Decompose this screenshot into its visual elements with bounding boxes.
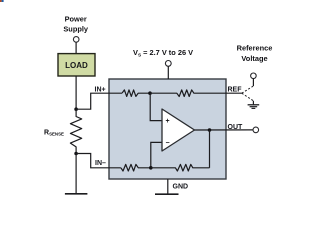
wire: feedback from output node down <box>209 130 211 168</box>
ground: left <box>65 193 88 195</box>
terminal: Vs supply <box>165 61 171 67</box>
svg-text:Voltage: Voltage <box>241 54 267 63</box>
resistor RSENSE <box>70 109 81 153</box>
wire: dashed REF to ground <box>242 93 254 101</box>
svg-text:RSENSE: RSENSE <box>44 129 64 136</box>
svg-text:Reference: Reference <box>237 43 273 52</box>
resistor R2 (top-right internal) + wire to REF <box>150 90 242 97</box>
svg-text:IN–: IN– <box>95 160 106 167</box>
terminal: power supply <box>73 37 79 43</box>
wire: op-amp output to OUT terminal <box>195 129 254 131</box>
svg-text:Power: Power <box>65 14 87 23</box>
node: junction dot top of Rsense <box>74 107 78 111</box>
node: output junction dot <box>208 128 212 132</box>
wire: LOAD to node IN+ <box>75 76 77 109</box>
corner artifact mark <box>0 0 4 2</box>
wire: dashed REF to reference voltage <box>242 86 254 93</box>
terminal: reference voltage <box>251 73 257 79</box>
op-amp U1A <box>162 109 195 151</box>
ground: center <box>155 193 179 195</box>
LOAD box <box>58 54 95 76</box>
svg-text:REF: REF <box>228 86 243 93</box>
terminal: OUT <box>253 127 259 133</box>
resistor R4 (bottom-right internal, feedback) <box>151 164 210 171</box>
svg-text:−: − <box>166 140 170 147</box>
svg-text:OUT: OUT <box>228 124 244 131</box>
wire: ref ground stub <box>252 101 254 105</box>
wire: Rsense to ground <box>75 154 77 194</box>
wire: minus input from bottom node <box>151 142 162 167</box>
wire: IN- branch <box>76 154 121 168</box>
IC block U1 <box>109 79 226 179</box>
wire: Vs terminal to block <box>167 66 169 79</box>
svg-text:GND: GND <box>173 183 189 190</box>
wire: plus input from top node <box>150 93 162 120</box>
wire: IN+ branch <box>76 93 122 109</box>
svg-text:+: + <box>166 118 170 125</box>
resistor R1 (top-left internal) <box>122 90 150 97</box>
resistor R3 (bottom-left internal) <box>121 164 151 171</box>
svg-text:IN+: IN+ <box>95 86 106 93</box>
wire: ref terminal stub <box>252 79 254 86</box>
svg-text:Supply: Supply <box>63 25 89 34</box>
node: junction dot top row <box>148 91 152 95</box>
node: junction dot bottom of Rsense <box>74 152 78 156</box>
node: junction dot bottom row <box>149 166 153 170</box>
ground: reference (earth) <box>248 105 260 109</box>
wire: GND pin down <box>167 179 169 194</box>
svg-text:LOAD: LOAD <box>65 61 88 70</box>
svg-text:VS = 2.7 V to 26 V: VS = 2.7 V to 26 V <box>133 48 193 57</box>
wire: supply terminal to LOAD <box>75 42 77 53</box>
